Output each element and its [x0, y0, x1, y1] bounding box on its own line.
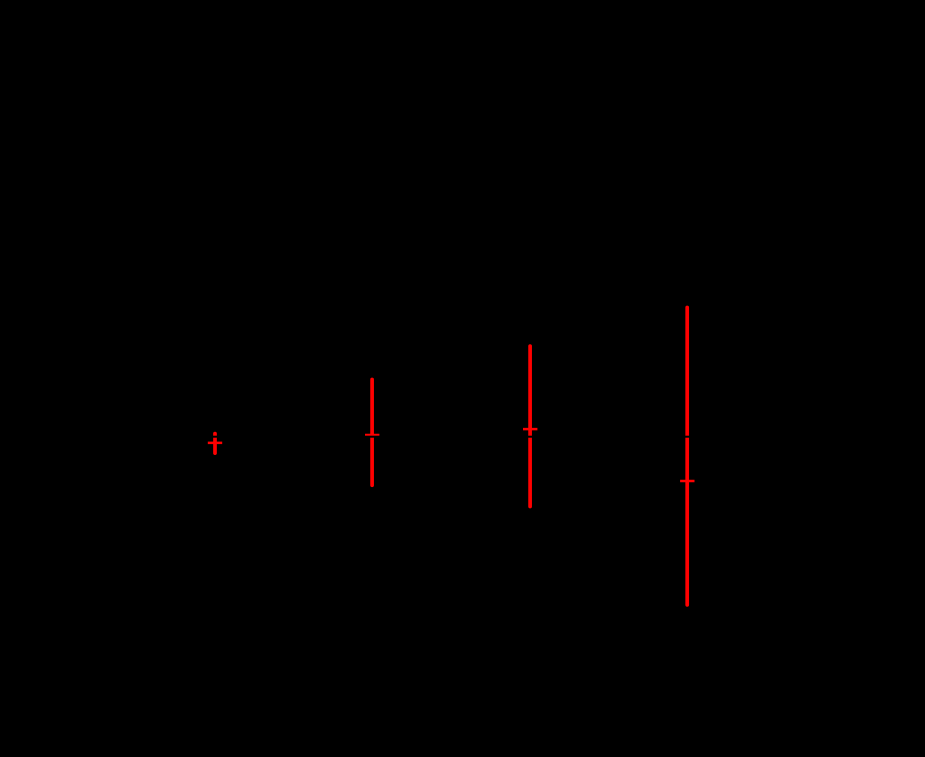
error bar 3 vertical line [528, 346, 532, 506]
error bar 2 vertical line [370, 380, 374, 486]
error bar 3 tick marker [523, 428, 537, 431]
error bar 4 vertical line [685, 308, 689, 605]
error bar 1 vertical line [213, 434, 217, 454]
black horizontal overlay line crossing the bars [0, 436, 925, 438]
error bar 4 tick marker [680, 480, 694, 483]
error bar 1 tick marker [208, 442, 222, 445]
error bar 2 tick marker [365, 434, 379, 437]
